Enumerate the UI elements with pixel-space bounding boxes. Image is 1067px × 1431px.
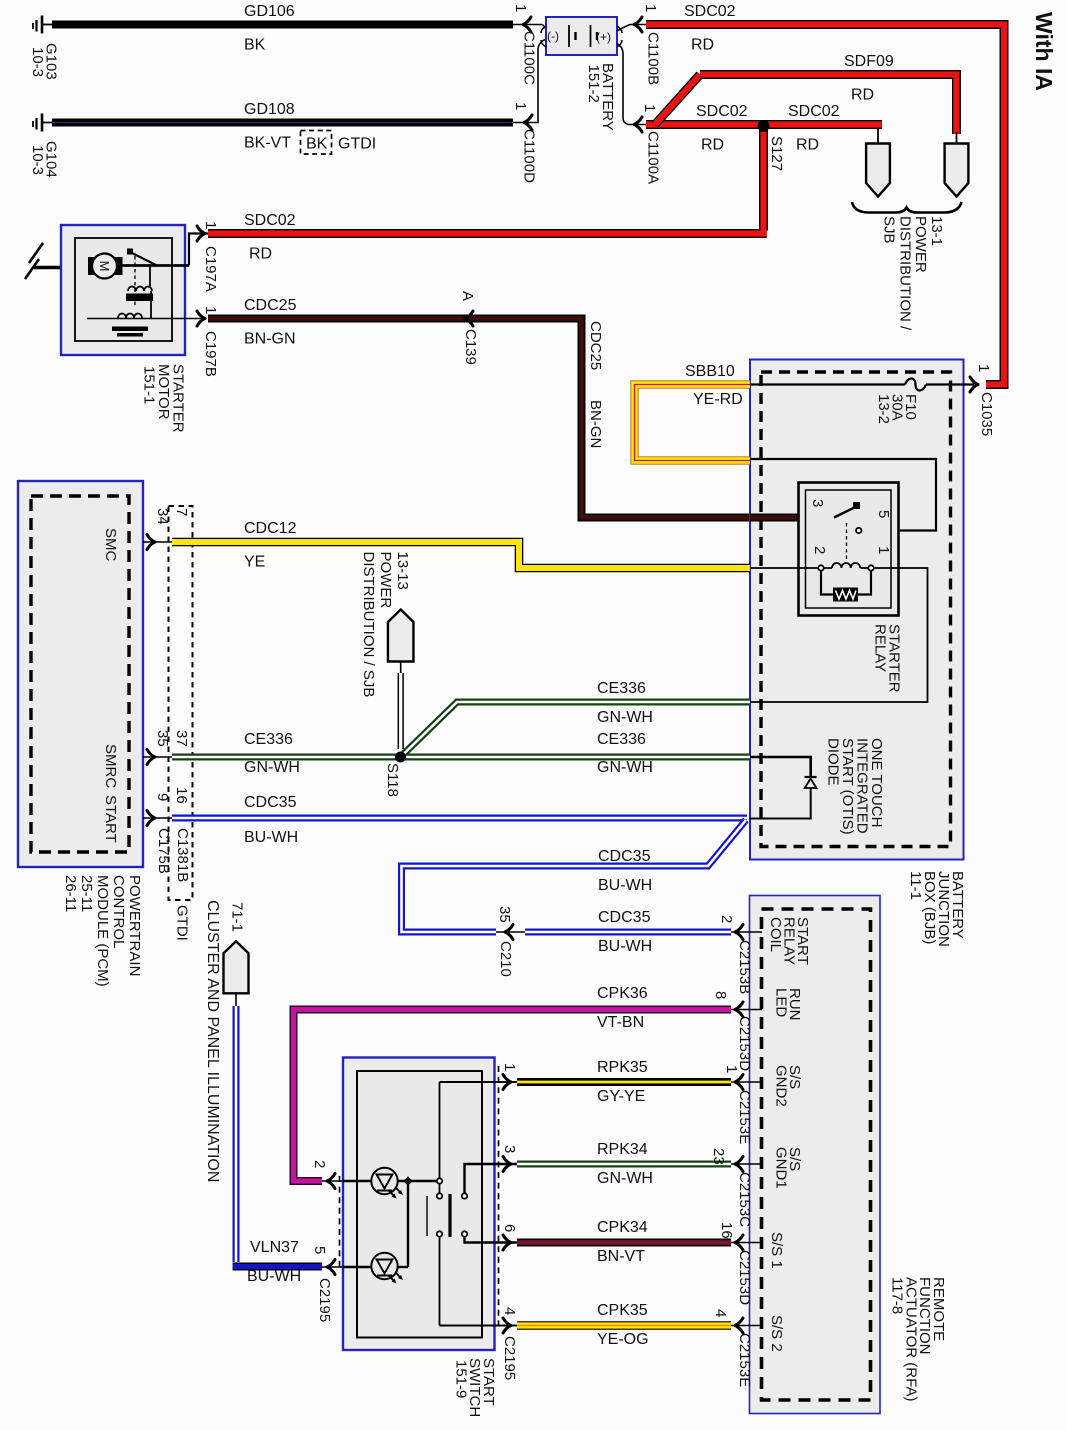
wire RPK34 GN-WH — [517, 1141, 731, 1187]
svg-text:F1030A13-2: F1030A13-2 — [875, 394, 919, 424]
svg-text:CPK34: CPK34 — [597, 1219, 648, 1236]
connector C2195 pin 5 — [311, 1246, 343, 1275]
svg-text:GN-WH: GN-WH — [597, 1170, 653, 1187]
wire CDC25 BN-GN inside BJB to relay pin 3 — [750, 514, 834, 522]
svg-text:CDC25: CDC25 — [587, 321, 604, 370]
PCM pin SMC 34 — [102, 508, 190, 562]
wire CDC35 BU-WH main run — [172, 794, 747, 846]
svg-text:CE336: CE336 — [597, 680, 646, 697]
ground G104 — [29, 114, 60, 178]
wire CE336 GN-WH lower run — [172, 731, 750, 776]
svg-text:C2153E: C2153E — [736, 1333, 753, 1387]
svg-text:YE: YE — [244, 554, 265, 571]
connector C1100C pin 1 — [512, 4, 546, 85]
svg-text:C197B: C197B — [202, 331, 219, 377]
connector C2195 pin 4 — [501, 1307, 518, 1333]
PCM pin SMRC 35 — [102, 730, 190, 788]
cluster and panel illumination connector 71-1 — [204, 900, 249, 1182]
PCM pin START 9 — [102, 787, 190, 843]
svg-text:(+): (+) — [596, 30, 611, 44]
svg-text:RD: RD — [249, 246, 272, 263]
svg-text:CE336: CE336 — [244, 731, 293, 748]
svg-text:CDC25: CDC25 — [244, 297, 297, 314]
svg-text:C2195: C2195 — [316, 1278, 333, 1322]
connector C175B / C1381B GTDI strip — [155, 506, 193, 941]
svg-text:SMRC: SMRC — [102, 744, 119, 788]
wire SDF09 RD — [700, 53, 957, 134]
svg-text:GN-WH: GN-WH — [597, 709, 653, 726]
connector C2195 pin 3 — [501, 1145, 518, 1172]
svg-text:GY-YE: GY-YE — [597, 1088, 645, 1105]
svg-text:C197A: C197A — [202, 246, 219, 292]
wire CPK36 VT-BN — [294, 985, 732, 1181]
svg-text:C1100D: C1100D — [521, 129, 538, 183]
RFA pin S/S 2 / C2153E 4 — [712, 1309, 785, 1387]
svg-text:C2153E: C2153E — [736, 1090, 753, 1144]
svg-text:With IA: With IA — [1031, 12, 1057, 91]
splice S127 — [758, 120, 786, 171]
svg-text:START: START — [102, 795, 119, 843]
svg-text:CE336: CE336 — [597, 731, 646, 748]
svg-text:1: 1 — [875, 546, 892, 554]
wire CDC35 BU-WH C210 to RFA — [525, 909, 731, 955]
relay coil pins 2 and 1 — [750, 563, 874, 571]
svg-text:S/S 2: S/S 2 — [768, 1315, 785, 1352]
starter solenoid switch — [122, 249, 189, 309]
svg-text:C210: C210 — [497, 941, 514, 977]
svg-text:SDC02: SDC02 — [696, 103, 748, 120]
svg-text:GN-WH: GN-WH — [597, 759, 653, 776]
connector C197A pin 1 — [189, 221, 219, 292]
svg-text:C1100A: C1100A — [645, 131, 662, 184]
svg-text:BU-WH: BU-WH — [247, 1268, 301, 1285]
svg-text:C2153D: C2153D — [736, 1016, 753, 1071]
connector C1100B pin 1 — [617, 4, 662, 85]
svg-text:2: 2 — [311, 1160, 328, 1168]
link SJB arrow to S118 — [397, 673, 399, 749]
svg-text:16: 16 — [173, 787, 190, 804]
connector C139 pin A — [459, 291, 479, 365]
connector C210 pin 35 — [496, 906, 525, 977]
connector C2195 pin 2 — [311, 1160, 343, 1322]
svg-text:C2153D: C2153D — [736, 1250, 753, 1305]
svg-text:GD106: GD106 — [244, 3, 295, 20]
svg-text:GTDI: GTDI — [174, 905, 191, 941]
svg-text:1: 1 — [642, 4, 659, 12]
svg-text:23: 23 — [710, 1148, 727, 1165]
svg-text:BK: BK — [244, 37, 266, 54]
svg-text:S/S 1: S/S 1 — [768, 1232, 785, 1269]
wire CPK34 BN-VT — [517, 1219, 731, 1265]
battery junction box (BJB) 11-1 — [750, 360, 964, 860]
svg-text:C139: C139 — [462, 329, 479, 365]
svg-text:SDC02: SDC02 — [244, 212, 296, 229]
svg-text:BK-VT: BK-VT — [244, 135, 291, 152]
starter solenoid pull-in winding — [126, 266, 153, 319]
svg-text:BN-GN: BN-GN — [587, 400, 604, 448]
svg-text:C1381B: C1381B — [174, 828, 191, 882]
connector C197B pin 1 — [197, 306, 219, 377]
svg-text:RPK35: RPK35 — [597, 1059, 648, 1076]
wire SBB10 YE-RD loop — [635, 363, 751, 461]
svg-text:G10410-3: G10410-3 — [29, 141, 60, 178]
powertrain control module (PCM) box — [18, 481, 143, 867]
svg-text:C1100B: C1100B — [645, 32, 662, 85]
wire GD106 BK — [52, 3, 513, 54]
relay coil return to CE336 — [750, 568, 928, 702]
start switch LED 1 — [343, 1168, 440, 1199]
svg-text:C175B: C175B — [155, 828, 172, 874]
svg-text:RD: RD — [691, 37, 714, 54]
braces under SJB arrows — [852, 202, 962, 213]
svg-text:1: 1 — [975, 364, 992, 372]
svg-text:M: M — [97, 261, 112, 272]
svg-text:5: 5 — [311, 1246, 328, 1254]
svg-text:CDC35: CDC35 — [598, 848, 651, 865]
BK takeout dashed tag + GTDI — [301, 131, 377, 155]
wire RPK35 GY-YE — [517, 1059, 731, 1105]
svg-text:RPK34: RPK34 — [597, 1141, 648, 1158]
switch wire to pin 1 — [440, 1081, 518, 1083]
svg-text:RD: RD — [851, 87, 874, 104]
wire CE336 GN-WH upper branch — [401, 680, 751, 757]
svg-text:8: 8 — [712, 991, 729, 999]
svg-text:GTDI: GTDI — [338, 136, 376, 153]
svg-text:7: 7 — [173, 508, 190, 516]
svg-text:CDC12: CDC12 — [244, 520, 297, 537]
wire CPK35 YE-OG — [517, 1302, 731, 1348]
svg-text:CDC35: CDC35 — [598, 909, 651, 926]
SJB power distribution connector (13-13) — [360, 552, 413, 698]
chassis ground at starter motor — [25, 243, 88, 279]
svg-text:6: 6 — [501, 1224, 518, 1232]
starter relay box — [799, 483, 899, 616]
svg-text:4: 4 — [501, 1307, 518, 1315]
svg-text:1: 1 — [512, 102, 529, 110]
svg-text:35: 35 — [496, 906, 513, 923]
wire SDC02 RD S127 down to starter motor — [208, 125, 767, 263]
svg-text:A: A — [459, 291, 476, 301]
RFA pin RUN LED / C2153D 8 — [712, 988, 803, 1071]
SJB power distribution connector arrow 1 — [866, 128, 890, 197]
remote function actuator (RFA) box — [750, 896, 881, 1414]
svg-text:VT-BN: VT-BN — [597, 1014, 644, 1031]
wire SDC02 RD C1100A to S127 to SJB — [646, 75, 882, 154]
svg-text:1: 1 — [202, 221, 219, 229]
relay coil suppression resistor — [821, 571, 871, 602]
svg-text:(-): (-) — [547, 29, 559, 43]
svg-text:G10310-3: G10310-3 — [29, 43, 60, 80]
wire SDC02 RD battery to BJB fuse (C1035 leg) — [646, 3, 1004, 385]
svg-text:BU-WH: BU-WH — [598, 877, 652, 894]
connector C2195 pin 1 — [501, 1063, 518, 1380]
svg-text:71-1: 71-1 — [229, 902, 246, 932]
svg-text:C2195: C2195 — [501, 1336, 518, 1380]
svg-text:BK: BK — [306, 136, 328, 153]
svg-text:BN-VT: BN-VT — [597, 1248, 645, 1265]
RFA pin S/S 1 / C2153D 16 — [718, 1222, 785, 1305]
RFA pin S/S GND1 / C2153C 23 — [710, 1147, 803, 1227]
svg-text:SDC02: SDC02 — [788, 103, 840, 120]
svg-text:2: 2 — [811, 546, 828, 554]
svg-text:GN-WH: GN-WH — [244, 759, 300, 776]
SJB power distribution connector arrow 2 — [945, 132, 969, 197]
svg-text:BU-WH: BU-WH — [244, 829, 298, 846]
svg-text:SMC: SMC — [102, 528, 119, 562]
LED common link — [403, 1176, 412, 1267]
connector C1100D pin 1 — [512, 40, 545, 184]
OTIS diode — [750, 757, 817, 819]
svg-text:YE-RD: YE-RD — [693, 391, 743, 408]
ground G103 — [29, 16, 60, 80]
svg-text:3: 3 — [809, 499, 826, 507]
svg-text:5: 5 — [875, 510, 892, 518]
svg-text:RUNLED: RUNLED — [773, 988, 804, 1021]
svg-text:YE-OG: YE-OG — [597, 1331, 649, 1348]
RFA pin START RELAY COIL / C2153B 2 — [718, 915, 811, 994]
svg-text:1: 1 — [641, 104, 658, 112]
starter relay feed (SBB10 to pin 5) — [750, 459, 936, 531]
fuse F10 30A 13-2 — [750, 379, 974, 425]
svg-text:S118: S118 — [384, 763, 401, 797]
switch wire to pin 4 — [440, 1325, 518, 1327]
svg-text:2: 2 — [718, 915, 735, 923]
svg-text:37: 37 — [173, 730, 190, 747]
RFA pin S/S GND2 / C2153E 1 — [723, 1065, 803, 1144]
wire CDC25 BN-GN — [208, 297, 834, 518]
connector C1035 pin 1 — [970, 364, 995, 436]
svg-text:C2153C: C2153C — [736, 1172, 753, 1227]
svg-text:1: 1 — [723, 1065, 740, 1073]
svg-text:BN-GN: BN-GN — [244, 331, 296, 348]
svg-text:SDC02: SDC02 — [684, 3, 736, 20]
wire GD108 BK-VT — [52, 101, 513, 152]
wire CDC35 BU-WH branch to C210 — [402, 820, 747, 932]
svg-text:RD: RD — [796, 137, 819, 154]
connector C1100A pin 1 — [617, 44, 662, 185]
switch wire to pin 3 — [465, 1164, 518, 1193]
svg-text:SBB10: SBB10 — [685, 363, 735, 380]
svg-text:RD: RD — [701, 137, 724, 154]
svg-text:1: 1 — [512, 4, 529, 12]
svg-text:C1100C: C1100C — [521, 31, 538, 85]
start switch contacts — [427, 1082, 467, 1326]
svg-text:BU-WH: BU-WH — [598, 938, 652, 955]
connector C2195 pin 6 — [501, 1224, 518, 1250]
svg-text:CLUSTER AND PANEL ILLUMINATION: CLUSTER AND PANEL ILLUMINATION — [204, 900, 221, 1182]
starter solenoid hold-in winding — [87, 314, 205, 337]
svg-text:S127: S127 — [768, 136, 785, 171]
svg-text:16: 16 — [718, 1222, 735, 1239]
svg-text:4: 4 — [712, 1309, 729, 1317]
battery 151-2 — [541, 17, 622, 131]
svg-text:CPK35: CPK35 — [597, 1302, 648, 1319]
svg-text:GD108: GD108 — [244, 101, 295, 118]
svg-text:VLN37: VLN37 — [250, 1239, 299, 1256]
splice S118 — [384, 752, 406, 797]
start switch LED 2 — [343, 1253, 408, 1284]
svg-text:CPK36: CPK36 — [597, 985, 648, 1002]
start switch 151-9 box — [343, 1058, 495, 1351]
wire CDC12 YE — [172, 520, 750, 571]
svg-text:1: 1 — [501, 1063, 518, 1071]
wire VLN37 BU-WH — [233, 1006, 322, 1285]
switch wire to pin 6 — [465, 1237, 518, 1243]
svg-text:1: 1 — [202, 306, 219, 314]
svg-text:C2153B: C2153B — [736, 940, 753, 994]
svg-text:3: 3 — [501, 1145, 518, 1153]
starter motor M symbol — [88, 254, 123, 279]
svg-text:C1035: C1035 — [978, 392, 995, 436]
relay switch contacts pins 3 and 5 — [809, 499, 892, 562]
C2195 dashed connector lines — [340, 1066, 499, 1330]
svg-text:SDF09: SDF09 — [844, 53, 894, 70]
starter motor 151-1 box — [61, 225, 185, 355]
svg-text:CDC35: CDC35 — [244, 794, 297, 811]
